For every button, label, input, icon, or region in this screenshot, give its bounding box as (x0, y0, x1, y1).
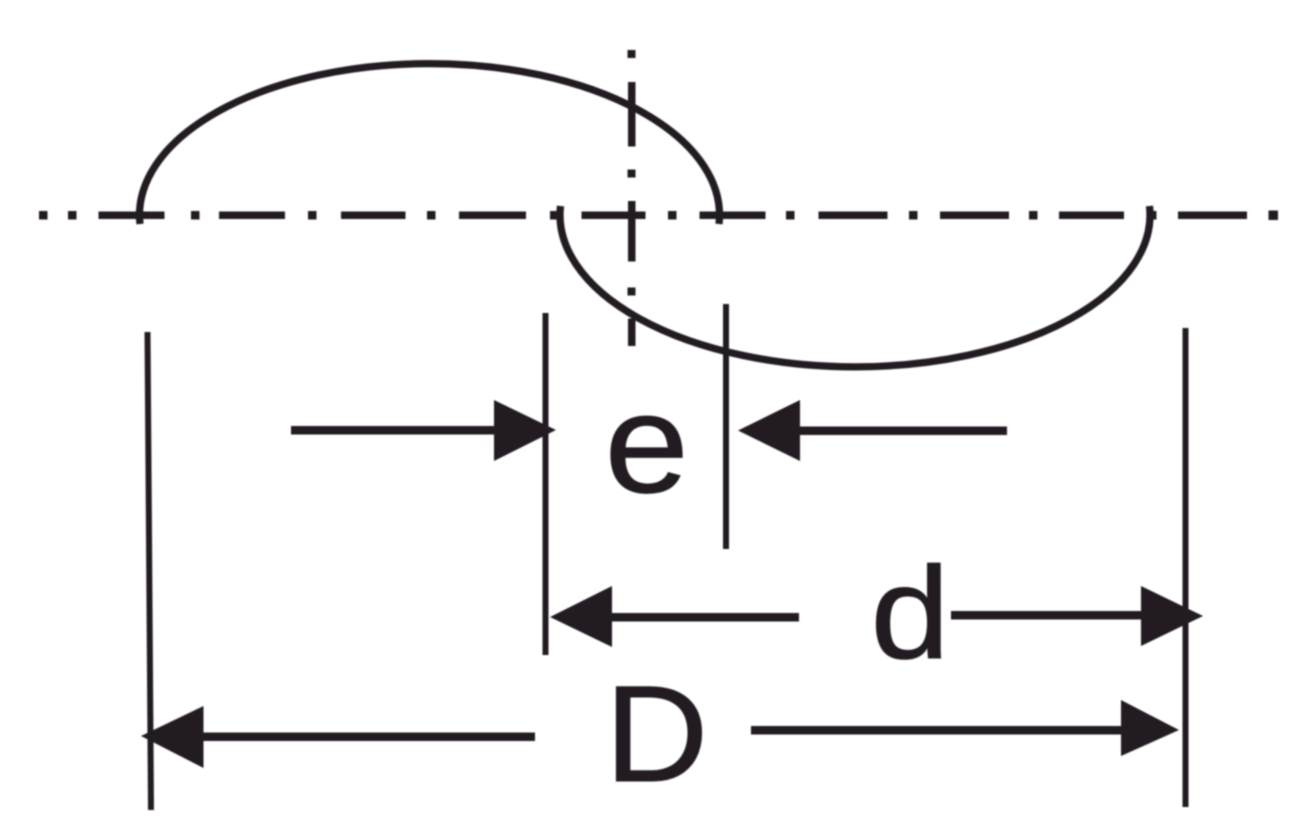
svg-text:e: e (605, 364, 689, 522)
horizontal centerline (dash-dot axis through both circle centers) (39, 211, 1278, 221)
dimension arrow, e left (points right) (291, 400, 556, 461)
dimension arrow, D left (points left) (141, 706, 535, 768)
svg-text:d: d (871, 539, 950, 686)
lower arc (half outline of circle d, below axis) (560, 206, 1150, 367)
svg-text:D: D (605, 658, 709, 811)
extension line, left bound of e (723, 304, 729, 549)
extension line, left edge of D (148, 332, 152, 810)
dimension arrow, d left (points left) (550, 586, 799, 647)
extension line, left edge of d / right bound of e (543, 313, 549, 655)
extension line, right edge of d and D (1183, 328, 1189, 807)
dimension arrow, e right (points left) (738, 400, 1007, 461)
dimension arrow, d right (points right) (951, 586, 1203, 646)
upper arc (half outline of circle D, above axis) (139, 64, 719, 224)
vertical centerline (dash-dot axis at inner circle centre) (628, 50, 636, 346)
dimension arrow, D right (points right) (751, 700, 1179, 756)
